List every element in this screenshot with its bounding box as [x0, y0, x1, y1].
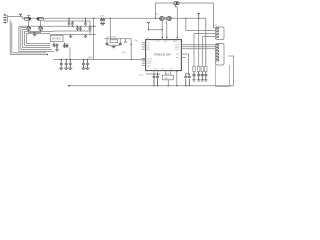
junction dots on top rail [101, 18, 102, 19]
IC bottom pins [154, 71, 177, 86]
wire connector pin3 down-left corner bus [10, 20, 47, 54]
LED LED4 [204, 72, 207, 80]
wire nested bus 4 [25, 31, 50, 45]
junction dots cluster E [53, 43, 54, 44]
wire under J2 inner corner [216, 65, 230, 87]
wire AVCC drop [109, 18, 111, 39]
resistor R6 [205, 66, 207, 71]
wire T1 emitter down [28, 20, 30, 27]
resistor R3 [193, 66, 195, 71]
crystal Q1 body [110, 40, 118, 43]
wire drop 198.7 [198, 18, 200, 66]
capacitor C2 [71, 21, 74, 27]
wire rail2 [19, 25, 96, 27]
pin labels right column [154, 40, 180, 70]
wire nested bus 5 stub [27, 32, 51, 34]
junction dot wire A right [185, 18, 186, 19]
IC U1 ATMEGA8 body [146, 40, 182, 71]
wire top pin 2 [166, 21, 168, 40]
svg-text:Q1 12MHz: Q1 12MHz [107, 36, 117, 38]
svg-text:22p: 22p [134, 40, 138, 42]
capacitor C16 [153, 74, 156, 86]
LED LED3 [201, 72, 204, 80]
IC left pin stubs [142, 43, 146, 66]
diode D3 inline [24, 16, 30, 21]
wire below resistor [167, 80, 169, 86]
capacitor C11 [82, 60, 85, 69]
svg-text:VCC: VCC [88, 58, 93, 60]
wire long ground rail [69, 85, 234, 87]
connector J2 box [216, 44, 225, 66]
wire nested bus 5 [27, 33, 51, 43]
voltage regulator IC2 box [51, 35, 64, 41]
capacitor C5b [89, 26, 92, 32]
svg-text:SCK: SCK [175, 49, 179, 51]
wire nested bus 3 stub [23, 28, 27, 30]
wire connector pin4 down corner bus [12, 23, 46, 53]
capacitor C8 [60, 60, 63, 69]
crystal Q1 top bar [105, 38, 125, 40]
wire nested bus 4 stub [25, 30, 54, 32]
resistor R2 box 104 [162, 75, 173, 80]
connector J1 pins [216, 27, 219, 37]
svg-text:MAX809: MAX809 [52, 37, 62, 40]
capacitor C19 [188, 74, 191, 86]
capacitor C9 [65, 60, 68, 69]
capacitor C10 [69, 60, 72, 69]
ground GND7c [201, 80, 204, 81]
wire ground bus [50, 34, 96, 36]
svg-text:PB1: PB1 [176, 54, 179, 56]
svg-text:100n: 100n [100, 16, 105, 18]
wire nested bus 2 [21, 27, 52, 49]
capacitor C4 [79, 26, 82, 31]
diode D4 inline [37, 18, 43, 21]
diode D1 [27, 27, 31, 31]
IC top pin junctions [161, 37, 163, 39]
capacitor C15 plates [106, 43, 122, 44]
wire ground stub [34, 33, 36, 35]
wire bottom rail y74 [146, 73, 160, 75]
wire IC right pin 2 [181, 46, 215, 48]
wire drop 194 [193, 34, 195, 67]
wire nested bus 2 stub [21, 26, 26, 28]
ground GND3 [59, 68, 72, 69]
ground GND5 [100, 24, 105, 25]
connector X1 [3, 14, 6, 23]
wire diode join [29, 30, 41, 32]
ground GND8 [33, 35, 37, 36]
diode D6 top [174, 2, 179, 7]
junction dots on bus [61, 59, 62, 60]
svg-text:22p: 22p [122, 52, 126, 54]
connector J1 box [216, 27, 225, 40]
transistor Q2 [160, 16, 164, 20]
wire crystal ground join [107, 44, 120, 46]
wire IC right pin 4 [181, 54, 188, 74]
wire drop 202.3 [201, 37, 203, 67]
wire top rail corner down right [214, 3, 216, 28]
wire rail A2 [43, 21, 90, 26]
wire box1 pin wire y36.5 [202, 36, 215, 38]
svg-text:GND: GND [147, 65, 152, 67]
wire top rail corner down [155, 3, 157, 18]
ground GND4 [82, 68, 90, 69]
wire net RXD long top rail [8, 17, 206, 19]
wire top pin 3 [176, 7, 178, 40]
wire IC right pin 5 stub [181, 57, 186, 59]
wire top rail T3 [156, 2, 214, 4]
wire IC right pin 1 [181, 44, 215, 46]
crystal Q1 legs [107, 39, 120, 43]
wire T2 emitter down [40, 20, 42, 27]
wire nested bus 1 [19, 26, 54, 51]
capacitor C13 [100, 18, 103, 23]
ground GND7a [192, 80, 195, 81]
svg-text:PC0: PC0 [154, 69, 158, 71]
supply symbol VCC3 [147, 23, 150, 25]
ground GND2 [55, 47, 58, 51]
svg-text:PB0: PB0 [176, 58, 179, 60]
diode D2 [39, 27, 43, 31]
resistor R1 between [164, 17, 166, 19]
wire drop right of cluster [93, 18, 95, 59]
resistor R5 [201, 66, 203, 71]
supply symbol VCC1 [19, 14, 22, 16]
capacitor C1 [68, 18, 71, 27]
wire VCC3 to pin [149, 21, 163, 40]
wire drop 205.8 corner of rail A [205, 18, 207, 66]
svg-text:3V6: 3V6 [155, 14, 159, 16]
capacitor C14 [102, 18, 105, 23]
LED LED2 [197, 72, 200, 80]
svg-text:ATMEGA8-16PI: ATMEGA8-16PI [154, 54, 171, 57]
svg-text:PD3: PD3 [147, 49, 151, 51]
capacitor C6 cluster [53, 43, 59, 47]
svg-text:VCC: VCC [156, 41, 160, 43]
connector J2 pins [216, 44, 219, 61]
wire cap pair top [186, 73, 190, 75]
wire right rail corner [228, 56, 234, 86]
transistor Q3 [167, 16, 171, 20]
svg-text:PC1: PC1 [162, 69, 166, 71]
capacitor C5a [84, 18, 87, 27]
wire box1 pin wire y33.5 [194, 33, 216, 35]
ground GND1b [84, 35, 87, 38]
ground GND7b [197, 80, 200, 81]
capacitor C12 [86, 60, 89, 69]
wire rail3 [54, 30, 89, 32]
svg-text:PC2: PC2 [170, 69, 174, 71]
svg-text:LED: LED [165, 78, 170, 80]
wire drop at 185.8 [186, 18, 216, 30]
pin labels left column [147, 43, 154, 68]
wire X1 pins vertical [7, 15, 9, 23]
wire IC right pin 3 [181, 48, 215, 50]
supply symbol T4 [197, 13, 200, 18]
svg-text:4.7u: 4.7u [139, 75, 144, 77]
capacitor C17 [156, 74, 159, 86]
stub with open pin circle [125, 39, 127, 42]
wire from cluster down [69, 47, 71, 59]
wire C5b to bus [89, 31, 91, 35]
capacitor C18 [184, 74, 187, 86]
ground GND6 [111, 47, 115, 48]
capacitor C3 [76, 26, 79, 31]
ground GND1 [69, 35, 72, 38]
svg-text:AREF: AREF [173, 40, 179, 43]
resistor R4 [198, 66, 200, 71]
LED LED1 [193, 72, 196, 80]
svg-text:AVCC: AVCC [164, 40, 170, 43]
wire nested bus 3 [23, 29, 50, 47]
svg-text:SV1: SV1 [214, 25, 219, 27]
capacitor C7 cluster [63, 43, 68, 48]
wire VCC bus bottom [54, 59, 146, 61]
ground GND7d [204, 80, 207, 81]
wire drop to bus at 131 [124, 39, 131, 60]
